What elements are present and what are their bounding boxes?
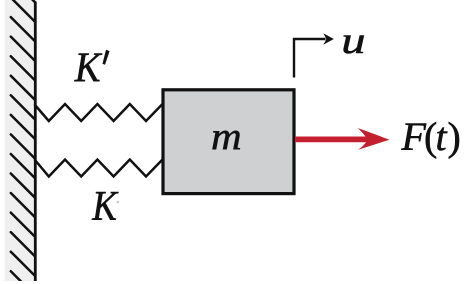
spring K' (top)	[35, 104, 163, 122]
prime mark of K'	[103, 50, 110, 65]
svg-text:m: m	[211, 115, 242, 158]
force arrow F(t) shaft	[295, 136, 368, 142]
stray faint dot after K	[117, 201, 120, 204]
mass block	[163, 90, 294, 194]
u arrowhead	[323, 33, 334, 45]
spring K (bottom)	[35, 159, 163, 177]
wall (fixed support strip)	[5, 0, 36, 281]
svg-text:): )	[448, 114, 461, 159]
force arrowhead	[358, 128, 390, 150]
displacement coordinate arrow u	[294, 39, 326, 78]
svg-text:F: F	[401, 114, 427, 159]
wall hatching	[11, 0, 36, 284]
svg-text:u: u	[341, 20, 365, 62]
wall face line	[34, 2, 37, 282]
svg-text:K: K	[91, 183, 119, 230]
svg-text:K: K	[74, 44, 103, 91]
svg-text:t: t	[436, 114, 448, 159]
